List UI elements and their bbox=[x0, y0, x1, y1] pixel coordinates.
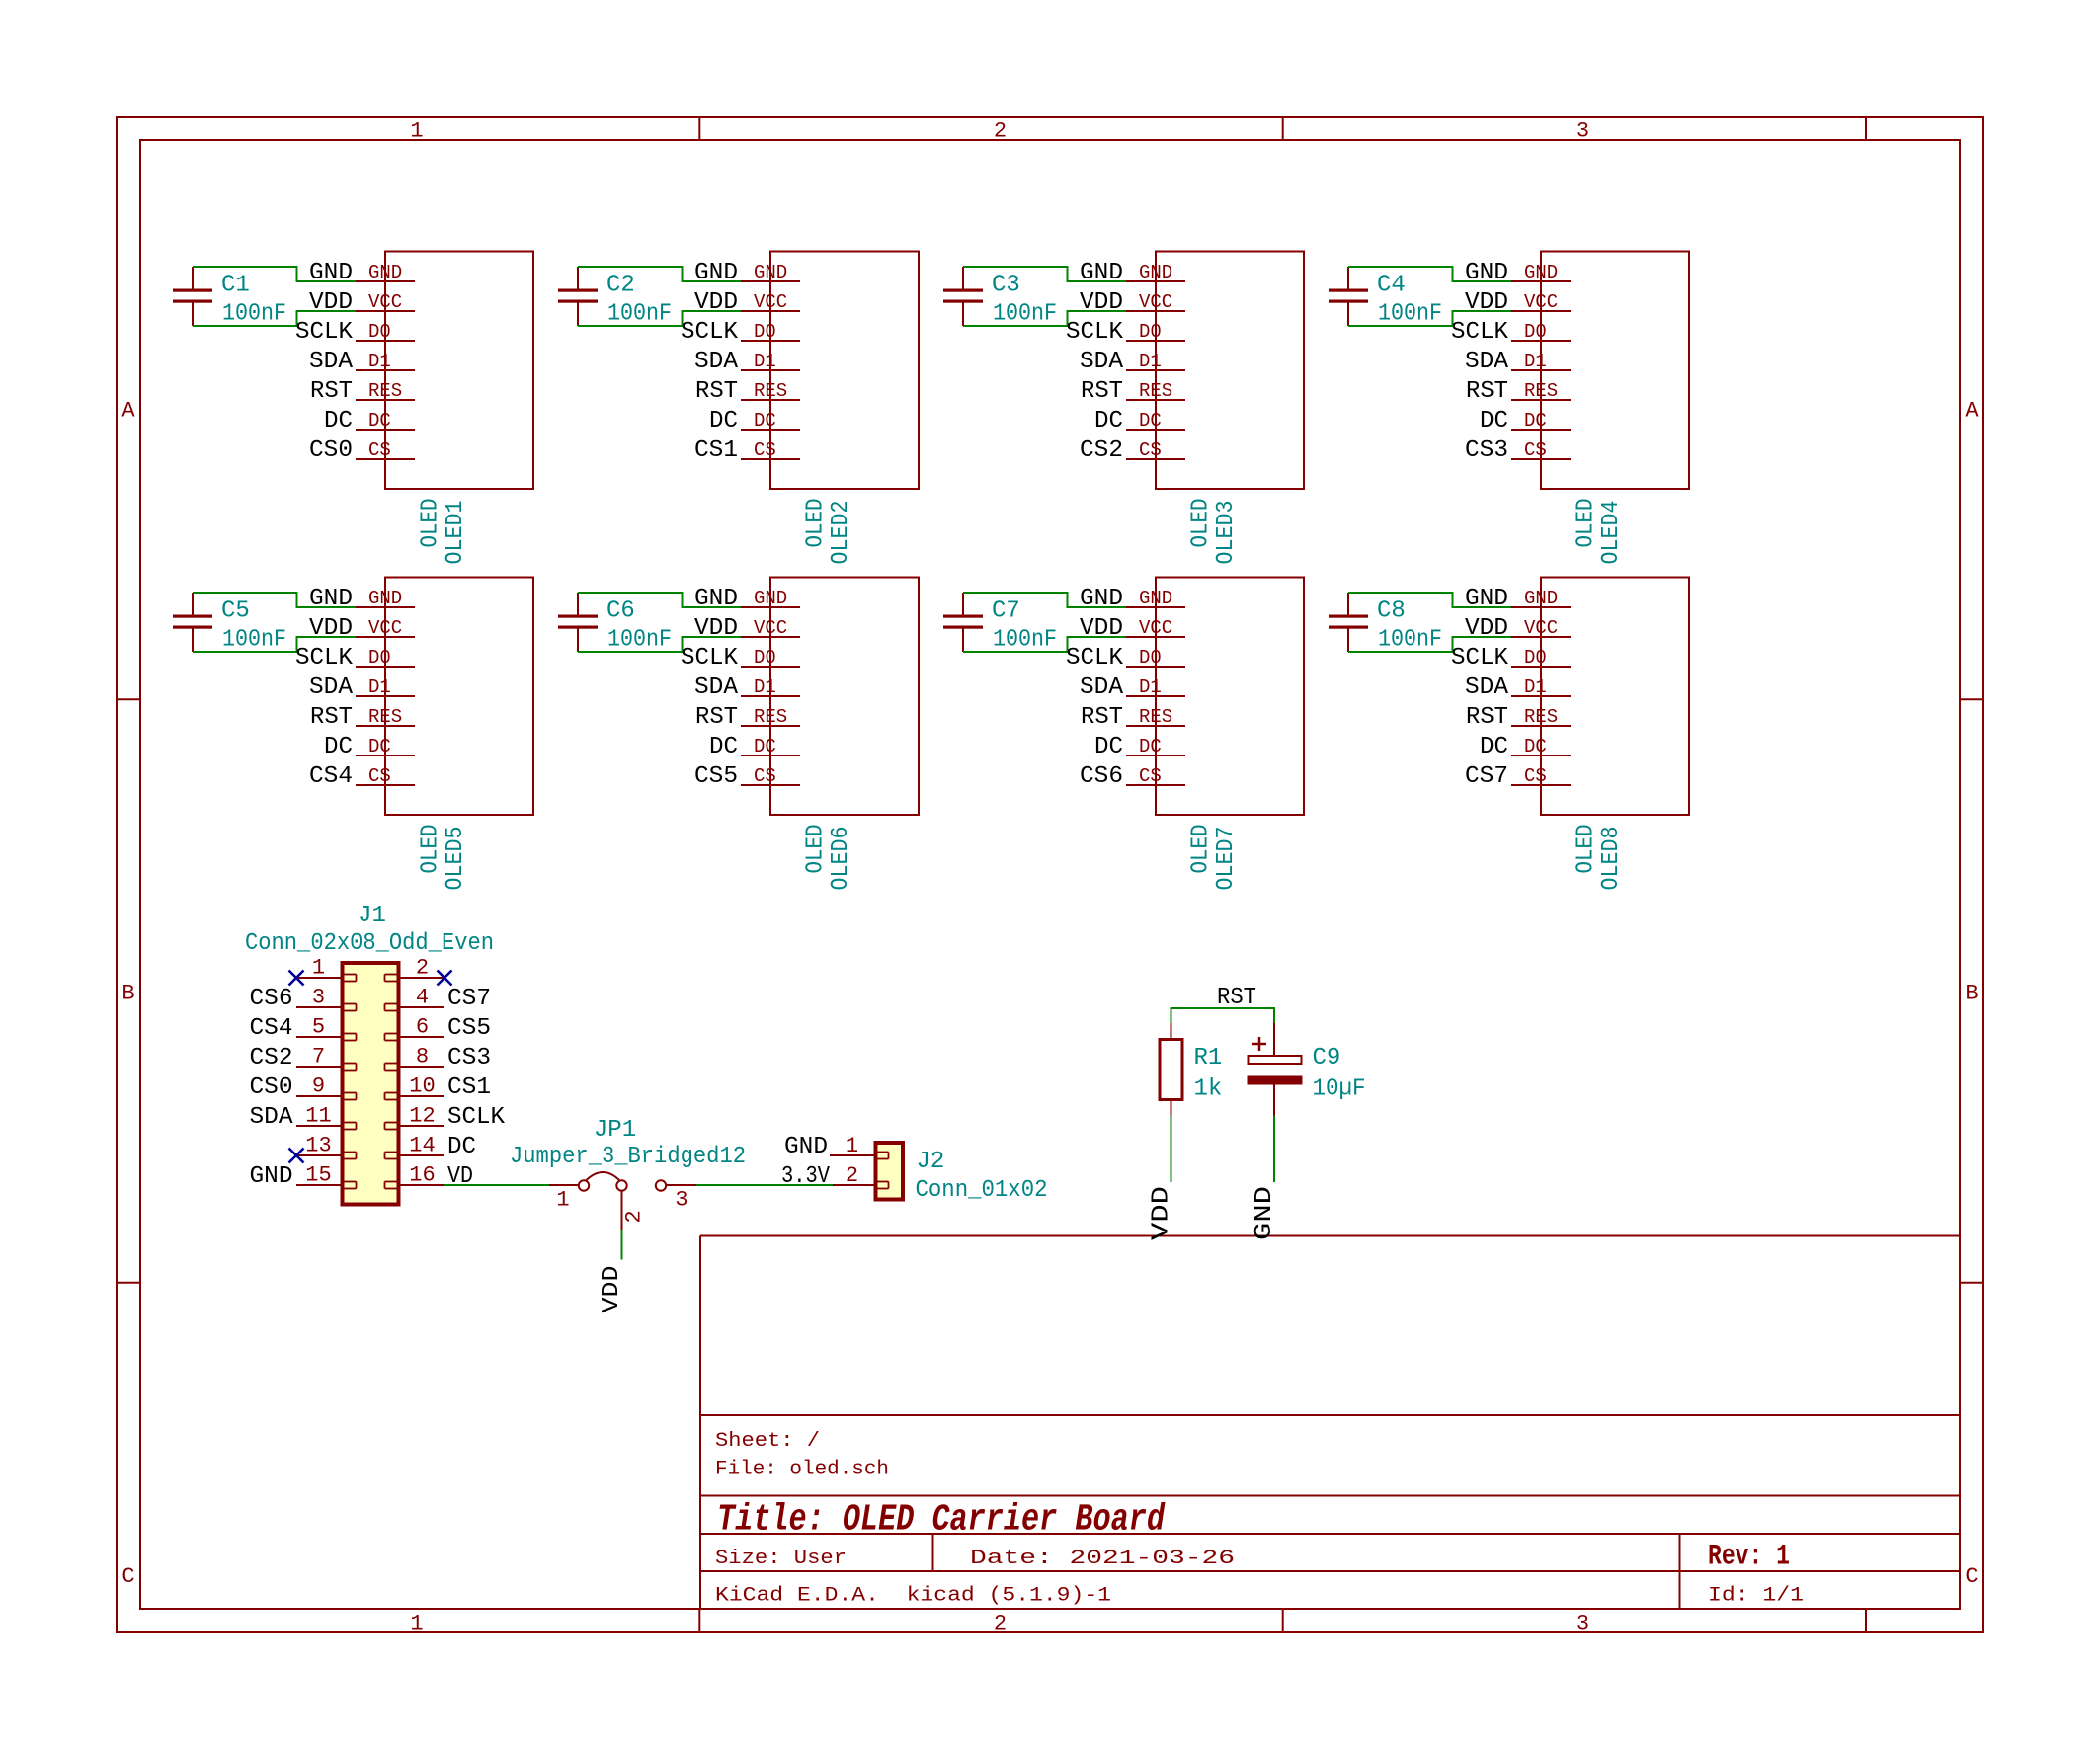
svg-text:Jumper_3_Bridged12: Jumper_3_Bridged12 bbox=[510, 1144, 746, 1170]
power net label GND at OLED4 pin 1 bbox=[1465, 260, 1508, 286]
svg-text:DC: DC bbox=[709, 408, 738, 435]
power net label VDD at OLED7 pin 2 bbox=[1080, 615, 1123, 642]
wire C8 top to OLED8 GND pin bbox=[1348, 593, 1511, 607]
power net label GND at J2 pin 1 bbox=[784, 1134, 828, 1160]
svg-text:DC: DC bbox=[368, 736, 391, 757]
svg-text:RST: RST bbox=[695, 378, 738, 405]
svg-text:15: 15 bbox=[305, 1163, 331, 1188]
net label RST at OLED1 pin 5 bbox=[310, 378, 353, 405]
svg-text:SDA: SDA bbox=[694, 349, 739, 375]
svg-text:12: 12 bbox=[409, 1104, 435, 1129]
value label 100nF (C5) bbox=[222, 627, 286, 654]
svg-text:CS7: CS7 bbox=[1465, 763, 1508, 790]
net label CS2 at J1 bbox=[250, 1045, 293, 1072]
value label 100nF (C7) bbox=[993, 627, 1057, 654]
power net label VDD at OLED1 pin 2 bbox=[309, 289, 353, 316]
wire C5 bottom to OLED5 VDD pin bbox=[193, 637, 356, 652]
svg-text:DC: DC bbox=[1480, 408, 1508, 435]
svg-text:GND: GND bbox=[1080, 260, 1123, 286]
svg-text:D0: D0 bbox=[1524, 321, 1547, 343]
svg-text:CS: CS bbox=[1524, 439, 1547, 461]
value label Jumper_3_Bridged12 (JP1) bbox=[510, 1144, 746, 1170]
OLED module symbol OLED8 bbox=[1511, 578, 1689, 816]
svg-text:OLED2: OLED2 bbox=[828, 501, 854, 565]
svg-text:100nF: 100nF bbox=[993, 301, 1057, 328]
svg-text:100nF: 100nF bbox=[607, 301, 672, 328]
capacitor C6 bbox=[558, 593, 598, 652]
OLED module symbol OLED7 bbox=[1126, 578, 1304, 816]
svg-text:Sheet: /: Sheet: / bbox=[715, 1430, 820, 1453]
OLED module symbol OLED6 bbox=[741, 578, 919, 816]
power net label VDD below R1 bbox=[1149, 1186, 1175, 1240]
svg-text:CS4: CS4 bbox=[309, 763, 353, 790]
svg-text:100nF: 100nF bbox=[993, 627, 1057, 654]
svg-text:2: 2 bbox=[994, 1612, 1007, 1636]
net label VD at J1 bbox=[447, 1163, 473, 1190]
wire C9 bottom to GND bbox=[1273, 1116, 1275, 1183]
svg-text:3: 3 bbox=[1576, 119, 1589, 144]
svg-text:RES: RES bbox=[368, 706, 402, 728]
svg-text:GND: GND bbox=[754, 262, 787, 283]
svg-text:GND: GND bbox=[1252, 1186, 1278, 1240]
net label CS0 at J1 bbox=[250, 1074, 293, 1101]
connector J1 (Conn_02x08_Odd_Even) body and pins bbox=[296, 963, 444, 1205]
OLED module symbol OLED5 bbox=[356, 578, 533, 816]
svg-text:3: 3 bbox=[312, 986, 325, 1010]
jumper JP1 (Jumper_3_Bridged12) body bbox=[549, 1172, 696, 1230]
svg-text:D1: D1 bbox=[368, 351, 391, 372]
value label OLED (OLED4) bbox=[1574, 499, 1600, 548]
svg-text:RES: RES bbox=[1524, 706, 1558, 728]
svg-text:6: 6 bbox=[416, 1015, 429, 1040]
svg-text:DC: DC bbox=[324, 734, 353, 760]
svg-text:GND: GND bbox=[1524, 262, 1558, 283]
svg-text:VDD: VDD bbox=[694, 615, 738, 642]
power net label VDD below JP1 bbox=[599, 1266, 625, 1313]
svg-text:CS: CS bbox=[368, 439, 391, 461]
value label OLED (OLED2) bbox=[803, 499, 830, 548]
svg-text:DC: DC bbox=[1524, 410, 1547, 432]
value label 100nF (C4) bbox=[1378, 301, 1442, 328]
wire C6 bottom to OLED6 VDD pin bbox=[578, 637, 741, 652]
reference label J1 bbox=[358, 903, 386, 929]
svg-text:CS: CS bbox=[368, 765, 391, 787]
svg-text:SDA: SDA bbox=[309, 675, 354, 701]
J2 pin number 2 bbox=[846, 1163, 858, 1188]
reference label OLED7 bbox=[1213, 827, 1240, 891]
wire C1 bottom to OLED1 VDD pin bbox=[193, 311, 356, 326]
reference label C8 bbox=[1377, 598, 1406, 625]
svg-text:RST: RST bbox=[1081, 704, 1123, 731]
wire C7 top to OLED7 GND pin bbox=[963, 593, 1126, 607]
wire J1 pin 16 (VD) to JP1 pin 1 bbox=[444, 1184, 549, 1186]
reference label JP1 bbox=[594, 1117, 636, 1144]
net label DC at OLED8 pin 6 bbox=[1480, 734, 1508, 760]
svg-text:100nF: 100nF bbox=[607, 627, 672, 654]
svg-text:C1: C1 bbox=[221, 273, 250, 299]
net label CS7 at J1 bbox=[447, 986, 491, 1012]
net label CS5 at OLED6 pin 7 bbox=[694, 763, 738, 790]
svg-text:File: oled.sch: File: oled.sch bbox=[715, 1459, 889, 1481]
svg-text:DC: DC bbox=[1094, 734, 1123, 760]
capacitor C2 bbox=[558, 267, 598, 326]
reference label C1 bbox=[221, 273, 250, 299]
value label 100nF (C1) bbox=[222, 301, 286, 328]
net label SDA at OLED7 pin 4 bbox=[1080, 675, 1124, 701]
net label SDA at OLED4 pin 4 bbox=[1465, 349, 1509, 375]
power net label VDD at OLED3 pin 2 bbox=[1080, 289, 1123, 316]
svg-text:B: B bbox=[1965, 982, 1978, 1006]
net label DC at OLED6 pin 6 bbox=[709, 734, 738, 760]
net label SCLK at OLED7 pin 3 bbox=[1066, 645, 1124, 672]
net label CS2 at OLED3 pin 7 bbox=[1080, 437, 1123, 464]
net label CS3 at OLED4 pin 7 bbox=[1465, 437, 1508, 464]
svg-text:DC: DC bbox=[709, 734, 738, 760]
svg-text:CS6: CS6 bbox=[250, 986, 293, 1012]
svg-text:RST: RST bbox=[1081, 378, 1123, 405]
svg-text:OLED1: OLED1 bbox=[443, 501, 469, 565]
svg-text:DC: DC bbox=[324, 408, 353, 435]
wire C7 bottom to OLED7 VDD pin bbox=[963, 637, 1126, 652]
svg-text:SDA: SDA bbox=[694, 675, 739, 701]
svg-text:CS: CS bbox=[1139, 765, 1162, 787]
svg-text:VCC: VCC bbox=[368, 617, 402, 639]
net label RST at OLED4 pin 5 bbox=[1466, 378, 1508, 405]
svg-text:SCLK: SCLK bbox=[447, 1104, 506, 1131]
value label Conn_01x02 (J2) bbox=[916, 1177, 1048, 1204]
net label SCLK at OLED2 pin 3 bbox=[681, 319, 739, 346]
svg-text:DC: DC bbox=[754, 410, 776, 432]
value label 100nF (C6) bbox=[607, 627, 672, 654]
svg-text:SDA: SDA bbox=[1465, 349, 1509, 375]
reference label C3 bbox=[992, 273, 1020, 299]
svg-text:CS3: CS3 bbox=[1465, 437, 1508, 464]
value label Conn_02x08_Odd_Even (J1) bbox=[245, 930, 494, 957]
power net label VDD at OLED2 pin 2 bbox=[694, 289, 738, 316]
wire C2 top to OLED2 GND pin bbox=[578, 267, 741, 281]
svg-text:2: 2 bbox=[416, 956, 429, 981]
power net label VDD at OLED5 pin 2 bbox=[309, 615, 353, 642]
wire C1 top to OLED1 GND pin bbox=[193, 267, 356, 281]
power net label VDD at OLED8 pin 2 bbox=[1465, 615, 1508, 642]
svg-text:OLED: OLED bbox=[1188, 825, 1215, 874]
net label SCLK at OLED5 pin 3 bbox=[295, 645, 354, 672]
net label SCLK at OLED1 pin 3 bbox=[295, 319, 354, 346]
net label SCLK at OLED6 pin 3 bbox=[681, 645, 739, 672]
svg-text:3: 3 bbox=[675, 1188, 687, 1213]
net label RST at OLED5 pin 5 bbox=[310, 704, 353, 731]
svg-text:VDD: VDD bbox=[599, 1266, 625, 1313]
JP1 pin number 2 bbox=[622, 1210, 647, 1223]
svg-text:C7: C7 bbox=[992, 598, 1020, 625]
wire C5 top to OLED5 GND pin bbox=[193, 593, 356, 607]
svg-text:C: C bbox=[1965, 1564, 1978, 1589]
svg-text:11: 11 bbox=[305, 1104, 331, 1129]
net label CS3 at J1 bbox=[447, 1045, 491, 1072]
svg-text:9: 9 bbox=[312, 1074, 325, 1099]
net label CS1 at J1 bbox=[447, 1074, 491, 1101]
svg-text:RES: RES bbox=[1139, 706, 1172, 728]
svg-text:C2: C2 bbox=[606, 273, 635, 299]
svg-text:GND: GND bbox=[1139, 588, 1172, 609]
net label GND at J1 bbox=[250, 1163, 293, 1190]
reference label C4 bbox=[1377, 273, 1406, 299]
value label 10uF (C9) bbox=[1313, 1076, 1366, 1103]
value label 100nF (C3) bbox=[993, 301, 1057, 328]
net label SDA at OLED8 pin 4 bbox=[1465, 675, 1509, 701]
wire C2 bottom to OLED2 VDD pin bbox=[578, 311, 741, 326]
polarized capacitor C9 bbox=[1248, 1023, 1303, 1116]
net label DC at J1 bbox=[447, 1134, 476, 1160]
svg-text:VDD: VDD bbox=[1080, 615, 1123, 642]
svg-text:OLED3: OLED3 bbox=[1213, 501, 1240, 565]
net label 3.3V at J2 pin 2 bbox=[781, 1163, 831, 1190]
value label OLED (OLED1) bbox=[418, 499, 444, 548]
svg-text:7: 7 bbox=[312, 1045, 325, 1070]
power net label GND below C9 bbox=[1252, 1186, 1278, 1240]
svg-text:VDD: VDD bbox=[309, 615, 353, 642]
svg-text:C6: C6 bbox=[606, 598, 635, 625]
connector J2 (Conn_01x02) body and pins bbox=[830, 1143, 903, 1200]
value label 100nF (C2) bbox=[607, 301, 672, 328]
svg-text:VDD: VDD bbox=[1080, 289, 1123, 316]
svg-text:SCLK: SCLK bbox=[295, 645, 354, 672]
svg-text:C: C bbox=[121, 1564, 134, 1589]
svg-text:DC: DC bbox=[1139, 410, 1162, 432]
svg-text:CS: CS bbox=[1524, 765, 1547, 787]
svg-text:VCC: VCC bbox=[1139, 291, 1172, 313]
svg-text:16: 16 bbox=[409, 1163, 435, 1188]
svg-text:3.3V: 3.3V bbox=[781, 1163, 831, 1190]
net label DC at OLED7 pin 6 bbox=[1094, 734, 1123, 760]
JP1 pin number 3 bbox=[675, 1188, 687, 1213]
power net label VDD at OLED6 pin 2 bbox=[694, 615, 738, 642]
svg-text:CS2: CS2 bbox=[250, 1045, 293, 1072]
svg-text:DC: DC bbox=[1480, 734, 1508, 760]
svg-text:VCC: VCC bbox=[1139, 617, 1172, 639]
svg-text:OLED: OLED bbox=[1574, 825, 1600, 874]
svg-text:DC: DC bbox=[1094, 408, 1123, 435]
svg-text:Id: 1/1: Id: 1/1 bbox=[1708, 1585, 1804, 1608]
svg-text:OLED5: OLED5 bbox=[443, 827, 469, 891]
svg-text:D0: D0 bbox=[1139, 321, 1162, 343]
svg-text:CS1: CS1 bbox=[694, 437, 738, 464]
svg-text:CS5: CS5 bbox=[694, 763, 738, 790]
svg-text:SCLK: SCLK bbox=[1451, 319, 1509, 346]
svg-text:GND: GND bbox=[250, 1163, 293, 1190]
svg-text:GND: GND bbox=[1465, 586, 1508, 612]
svg-text:100nF: 100nF bbox=[1378, 301, 1442, 328]
svg-text:RST: RST bbox=[1466, 704, 1508, 731]
J1 pin numbers 1-16 bbox=[305, 956, 435, 1188]
net label CS6 at OLED7 pin 7 bbox=[1080, 763, 1123, 790]
svg-text:D0: D0 bbox=[368, 647, 391, 669]
svg-text:SCLK: SCLK bbox=[681, 319, 739, 346]
svg-text:GND: GND bbox=[784, 1134, 828, 1160]
svg-text:2: 2 bbox=[994, 119, 1007, 144]
net label SDA at J1 bbox=[250, 1104, 294, 1131]
reference label OLED5 bbox=[443, 827, 469, 891]
svg-text:OLED4: OLED4 bbox=[1598, 501, 1625, 565]
svg-text:KiCad E.D.A. kicad (5.1.9)-1: KiCad E.D.A. kicad (5.1.9)-1 bbox=[715, 1585, 1111, 1608]
svg-text:Conn_02x08_Odd_Even: Conn_02x08_Odd_Even bbox=[245, 930, 494, 957]
svg-text:1: 1 bbox=[410, 1612, 423, 1636]
svg-text:D1: D1 bbox=[1139, 351, 1162, 372]
wire JP1 pin 2 to VDD bbox=[621, 1230, 623, 1260]
net label RST at OLED3 pin 5 bbox=[1081, 378, 1123, 405]
net label CS1 at OLED2 pin 7 bbox=[694, 437, 738, 464]
svg-text:GND: GND bbox=[309, 260, 353, 286]
net label SDA at OLED5 pin 4 bbox=[309, 675, 354, 701]
net label RST at OLED8 pin 5 bbox=[1466, 704, 1508, 731]
capacitor C8 bbox=[1329, 593, 1368, 652]
net label SCLK at OLED4 pin 3 bbox=[1451, 319, 1509, 346]
svg-text:D0: D0 bbox=[754, 647, 776, 669]
svg-text:SCLK: SCLK bbox=[681, 645, 739, 672]
value label 100nF (C8) bbox=[1378, 627, 1442, 654]
net label RST at OLED2 pin 5 bbox=[695, 378, 738, 405]
svg-text:D1: D1 bbox=[754, 676, 776, 698]
svg-text:GND: GND bbox=[754, 588, 787, 609]
svg-text:SDA: SDA bbox=[309, 349, 354, 375]
reference label C6 bbox=[606, 598, 635, 625]
value label OLED (OLED5) bbox=[418, 825, 444, 874]
net label DC at OLED1 pin 6 bbox=[324, 408, 353, 435]
value label OLED (OLED8) bbox=[1574, 825, 1600, 874]
svg-text:14: 14 bbox=[409, 1134, 435, 1158]
svg-text:Title: OLED Carrier Board: Title: OLED Carrier Board bbox=[717, 1499, 1166, 1542]
svg-text:VDD: VDD bbox=[1465, 289, 1508, 316]
svg-text:OLED: OLED bbox=[418, 499, 444, 548]
svg-text:OLED6: OLED6 bbox=[828, 827, 854, 891]
capacitor C3 bbox=[943, 267, 983, 326]
svg-text:GND: GND bbox=[1139, 262, 1172, 283]
svg-text:C9: C9 bbox=[1313, 1045, 1341, 1072]
svg-text:D1: D1 bbox=[1524, 676, 1547, 698]
svg-text:D1: D1 bbox=[368, 676, 391, 698]
svg-text:OLED: OLED bbox=[803, 499, 830, 548]
svg-text:RES: RES bbox=[754, 706, 787, 728]
reference label C5 bbox=[221, 598, 250, 625]
svg-text:JP1: JP1 bbox=[594, 1117, 636, 1144]
svg-text:RES: RES bbox=[754, 380, 787, 402]
svg-text:OLED: OLED bbox=[1188, 499, 1215, 548]
svg-text:C3: C3 bbox=[992, 273, 1020, 299]
resistor R1 bbox=[1160, 1023, 1182, 1116]
svg-text:CS2: CS2 bbox=[1080, 437, 1123, 464]
no-connect flag on J1 pin 13 bbox=[289, 1149, 304, 1163]
OLED module symbol OLED2 bbox=[741, 252, 919, 490]
reference label OLED8 bbox=[1598, 827, 1625, 891]
svg-text:OLED: OLED bbox=[418, 825, 444, 874]
svg-text:VDD: VDD bbox=[309, 289, 353, 316]
svg-text:DC: DC bbox=[754, 736, 776, 757]
svg-text:CS6: CS6 bbox=[1080, 763, 1123, 790]
svg-text:DC: DC bbox=[1524, 736, 1547, 757]
net label CS6 at J1 bbox=[250, 986, 293, 1012]
svg-text:DC: DC bbox=[368, 410, 391, 432]
capacitor C4 bbox=[1329, 267, 1368, 326]
net label CS5 at J1 bbox=[447, 1015, 491, 1042]
svg-text:A: A bbox=[121, 399, 135, 424]
wire C4 top to OLED4 GND pin bbox=[1348, 267, 1511, 281]
power net label VDD at OLED4 pin 2 bbox=[1465, 289, 1508, 316]
svg-text:GND: GND bbox=[368, 262, 402, 283]
svg-text:RES: RES bbox=[1524, 380, 1558, 402]
net label CS4 at J1 bbox=[250, 1015, 293, 1042]
svg-text:Rev: 1: Rev: 1 bbox=[1708, 1541, 1790, 1574]
svg-text:SCLK: SCLK bbox=[1451, 645, 1509, 672]
svg-text:D0: D0 bbox=[1139, 647, 1162, 669]
svg-text:1: 1 bbox=[556, 1188, 569, 1213]
svg-text:C8: C8 bbox=[1377, 598, 1406, 625]
net label RST bbox=[1217, 985, 1256, 1011]
reference label OLED4 bbox=[1598, 501, 1625, 565]
svg-text:D0: D0 bbox=[754, 321, 776, 343]
svg-text:5: 5 bbox=[312, 1015, 325, 1040]
net label SDA at OLED1 pin 4 bbox=[309, 349, 354, 375]
reference label OLED6 bbox=[828, 827, 854, 891]
svg-text:D0: D0 bbox=[368, 321, 391, 343]
capacitor C5 bbox=[173, 593, 212, 652]
svg-text:VDD: VDD bbox=[1149, 1186, 1175, 1240]
svg-text:OLED7: OLED7 bbox=[1213, 827, 1240, 891]
svg-text:VDD: VDD bbox=[694, 289, 738, 316]
svg-text:SDA: SDA bbox=[1465, 675, 1509, 701]
wire C4 bottom to OLED4 VDD pin bbox=[1348, 311, 1511, 326]
power net label GND at OLED7 pin 1 bbox=[1080, 586, 1123, 612]
svg-text:GND: GND bbox=[1524, 588, 1558, 609]
svg-text:J2: J2 bbox=[917, 1149, 945, 1175]
svg-text:CS7: CS7 bbox=[447, 986, 491, 1012]
svg-text:VCC: VCC bbox=[754, 291, 787, 313]
wire C3 top to OLED3 GND pin bbox=[963, 267, 1126, 281]
svg-text:RES: RES bbox=[368, 380, 402, 402]
svg-text:J1: J1 bbox=[358, 903, 386, 929]
svg-text:1k: 1k bbox=[1194, 1076, 1223, 1103]
net label SCLK at J1 bbox=[447, 1104, 506, 1131]
svg-text:GND: GND bbox=[1465, 260, 1508, 286]
power net label GND at OLED8 pin 1 bbox=[1465, 586, 1508, 612]
svg-text:VDD: VDD bbox=[1465, 615, 1508, 642]
wire R1 bottom to VDD bbox=[1171, 1116, 1172, 1183]
svg-text:D1: D1 bbox=[1139, 676, 1162, 698]
svg-text:GND: GND bbox=[368, 588, 402, 609]
svg-text:C4: C4 bbox=[1377, 273, 1406, 299]
reference label OLED3 bbox=[1213, 501, 1240, 565]
net label SCLK at OLED3 pin 3 bbox=[1066, 319, 1124, 346]
svg-text:CS4: CS4 bbox=[250, 1015, 293, 1042]
svg-text:RST: RST bbox=[1466, 378, 1508, 405]
value label OLED (OLED3) bbox=[1188, 499, 1215, 548]
svg-text:VCC: VCC bbox=[1524, 617, 1558, 639]
net label CS0 at OLED1 pin 7 bbox=[309, 437, 353, 464]
value label OLED (OLED7) bbox=[1188, 825, 1215, 874]
svg-text:3: 3 bbox=[1576, 1612, 1589, 1636]
svg-text:RST: RST bbox=[310, 704, 353, 731]
svg-text:OLED8: OLED8 bbox=[1598, 827, 1625, 891]
net label CS7 at OLED8 pin 7 bbox=[1465, 763, 1508, 790]
svg-text:1: 1 bbox=[846, 1134, 858, 1158]
svg-text:SDA: SDA bbox=[1080, 349, 1124, 375]
wire C8 bottom to OLED8 VDD pin bbox=[1348, 637, 1511, 652]
wire C6 top to OLED6 GND pin bbox=[578, 593, 741, 607]
wire C3 bottom to OLED3 VDD pin bbox=[963, 311, 1126, 326]
svg-text:GND: GND bbox=[694, 260, 738, 286]
net label DC at OLED4 pin 6 bbox=[1480, 408, 1508, 435]
svg-text:DC: DC bbox=[1139, 736, 1162, 757]
svg-text:CS0: CS0 bbox=[309, 437, 353, 464]
